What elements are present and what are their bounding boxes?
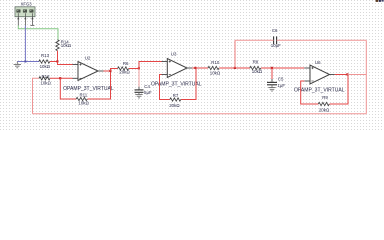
resistor R8 — [250, 60, 262, 75]
svg-text:5μF: 5μF — [144, 90, 152, 95]
XFG3 pin COM (middle) — [24, 13, 26, 25]
svg-text:20kΩ: 20kΩ — [169, 103, 179, 108]
resistor R14 — [56, 39, 71, 50]
resistor R6 — [118, 61, 130, 75]
svg-text:10kΩ: 10kΩ — [210, 71, 220, 76]
XFG3 pin + (left) — [17, 13, 19, 25]
wire to R10 — [196, 67, 209, 69]
wire blue horizontal to ground and R13 — [17, 61, 39, 63]
wire node A riser up to C6 line — [234, 40, 236, 68]
wire feedback bus riser up to R12 — [33, 78, 40, 114]
node B junction — [271, 67, 273, 69]
svg-text:10kΩ: 10kΩ — [78, 101, 88, 106]
svg-text:U2: U2 — [85, 55, 91, 60]
svg-text:20kΩ: 20kΩ — [319, 107, 329, 112]
wire riser to U3 + input — [139, 62, 162, 69]
wire C6 line left — [235, 39, 274, 41]
wire to node A — [219, 67, 250, 69]
wire to node B and U6 + input — [261, 67, 304, 69]
wire green from XFG3 + down and right to R14 top — [18, 26, 58, 41]
wire blue from XFG3 COM down — [24, 26, 26, 62]
svg-text:OPAMP_3T_VIRTUAL: OPAMP_3T_VIRTUAL — [294, 88, 345, 94]
wire U6 out to right riser — [348, 74, 367, 76]
node junction C4 — [138, 67, 140, 69]
svg-text:OPAMP_3T_VIRTUAL: OPAMP_3T_VIRTUAL — [151, 82, 202, 88]
svg-text:10kΩ: 10kΩ — [252, 69, 262, 74]
wire — [330, 75, 349, 105]
resistor R7 — [169, 93, 181, 108]
svg-text:R8: R8 — [253, 60, 259, 65]
svg-text:C5: C5 — [278, 77, 284, 82]
wire bottom feedback bus — [33, 113, 367, 115]
wire R14 bottom lead — [57, 51, 59, 62]
wire — [87, 71, 110, 99]
capacitor C5 — [267, 77, 285, 88]
wire U3 output — [187, 67, 192, 69]
resistor R11 — [76, 92, 89, 105]
node junction U3 out — [194, 67, 196, 69]
XFG3 pin - (right) — [30, 13, 34, 25]
svg-text:R9: R9 — [322, 95, 328, 100]
wire U2 output — [98, 70, 104, 72]
function generator XFG3 body — [15, 7, 35, 17]
svg-text:R6: R6 — [123, 61, 129, 66]
wire jog up to R6 row — [111, 69, 118, 72]
capacitor C6 top feedback — [271, 28, 281, 48]
svg-text:C6: C6 — [272, 28, 278, 33]
capacitor C4 — [135, 84, 152, 95]
svg-text:U3: U3 — [171, 52, 177, 57]
ground below C5 — [268, 85, 275, 91]
node A junction — [234, 67, 236, 69]
node blue junction — [24, 61, 26, 63]
svg-text:1μF: 1μF — [277, 83, 285, 88]
ground below C4 — [135, 92, 142, 98]
wire C6 line right — [277, 39, 367, 41]
wire to C4 node — [129, 68, 139, 70]
svg-text:R10: R10 — [211, 60, 220, 65]
op-amp U6 — [310, 60, 330, 84]
wire R7 feedback loop — [162, 74, 168, 76]
wire R12 to U2 - input — [50, 77, 73, 79]
svg-text:10μF: 10μF — [271, 43, 281, 48]
wire — [181, 68, 196, 100]
svg-text:XFG3: XFG3 — [21, 2, 33, 7]
node junction R12/R11 — [59, 77, 61, 79]
wire jog down to U2 + input — [58, 62, 73, 65]
svg-text:R13: R13 — [41, 53, 50, 58]
ground — [14, 62, 21, 68]
wire R9 feedback loop — [304, 80, 310, 82]
op-amp U3 — [167, 52, 187, 78]
svg-text:10kΩ: 10kΩ — [40, 64, 50, 69]
wire C5 drop — [271, 68, 273, 79]
op-amp U2 — [78, 55, 98, 80]
wire U6 output — [330, 74, 335, 76]
wire — [50, 61, 58, 63]
wire right riser — [365, 40, 367, 114]
wire C4 drop — [138, 69, 140, 87]
node junction U2 out — [109, 70, 111, 72]
node junction R13/R14 — [56, 60, 58, 62]
node junction U6 out — [346, 73, 348, 75]
top-right clipped text fragment — [376, 0, 384, 2]
svg-text:R7: R7 — [173, 93, 179, 98]
svg-text:OPAMP_3T_VIRTUAL: OPAMP_3T_VIRTUAL — [63, 86, 114, 92]
wire R11 feedback loop: down, right, up — [60, 78, 76, 99]
svg-text:C4: C4 — [144, 84, 150, 89]
resistor R12 — [39, 74, 51, 85]
resistor R13 — [39, 53, 50, 69]
svg-text:10kΩ: 10kΩ — [40, 80, 50, 85]
resistor R9 — [318, 95, 329, 113]
svg-text:20kΩ: 20kΩ — [119, 70, 129, 75]
resistor R10 — [208, 60, 220, 76]
svg-text:U6: U6 — [315, 60, 321, 65]
svg-text:10kΩ: 10kΩ — [61, 43, 71, 48]
